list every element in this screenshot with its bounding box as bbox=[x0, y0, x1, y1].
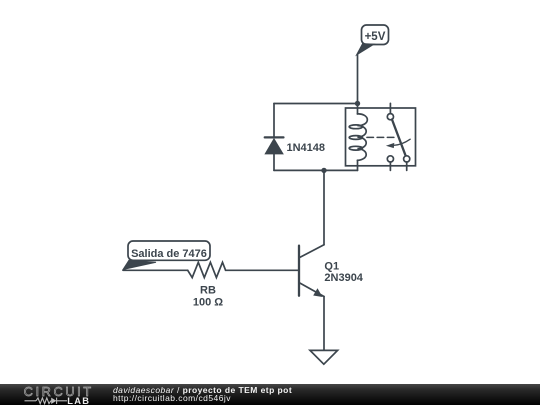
svg-text:LAB: LAB bbox=[67, 396, 90, 405]
relay K1 actuation dashed line bbox=[367, 136, 394, 138]
diode D1 1N4148 bbox=[265, 137, 284, 153]
footer bar bbox=[0, 384, 540, 405]
svg-text:+5V: +5V bbox=[365, 31, 386, 43]
relay K1 switch NC terminal bbox=[387, 156, 393, 162]
svg-text:2N3904: 2N3904 bbox=[324, 272, 363, 284]
net flag Salida de 7476 bbox=[123, 241, 210, 270]
wire flag to resistor RB bbox=[123, 269, 188, 271]
wire diode cathode lead bbox=[273, 104, 275, 138]
relay K1 switch pin stub bottom right bbox=[406, 162, 408, 170]
relay K1 coil pin top bbox=[357, 104, 359, 114]
ground bbox=[310, 350, 338, 364]
svg-text:100 Ω: 100 Ω bbox=[193, 297, 223, 309]
wire node A to diode branch (top horizontal) bbox=[274, 103, 358, 105]
node B junction dot bbox=[321, 168, 326, 173]
svg-text:Q1: Q1 bbox=[324, 260, 339, 272]
relay K1 switch NO terminal bbox=[404, 156, 410, 162]
wire diode anode to relay coil bottom (bottom horizontal) bbox=[274, 169, 358, 171]
wire +5V flag to node A bbox=[357, 55, 359, 104]
wire Q1 emitter to ground bbox=[323, 297, 325, 351]
relay K1 switch pin stub bottom left bbox=[389, 162, 391, 170]
relay K1 switch blade bbox=[392, 120, 406, 157]
relay K1 switch common terminal bbox=[387, 114, 393, 120]
resistor RB bbox=[188, 262, 226, 277]
relay K1 switch pin stub top bbox=[389, 103, 391, 113]
svg-text:RB: RB bbox=[200, 284, 216, 296]
wire diode anode lead bbox=[273, 154, 275, 171]
transistor Q1 2N3904 bbox=[299, 245, 324, 297]
node A junction dot bbox=[355, 101, 360, 106]
wire node B to Q1 collector bbox=[323, 170, 325, 244]
wire resistor RB to Q1 base bbox=[226, 269, 299, 271]
relay K1 coil pin bottom bbox=[357, 160, 359, 170]
relay K1 coil bbox=[349, 114, 367, 160]
svg-text:Salida de 7476: Salida de 7476 bbox=[131, 248, 207, 260]
svg-text:1N4148: 1N4148 bbox=[287, 142, 326, 154]
credit text bbox=[113, 386, 292, 403]
relay K1 actuation arrow bbox=[386, 139, 410, 148]
net flag +5V bbox=[357, 25, 389, 55]
relay K1 body bbox=[346, 108, 416, 166]
CircuitLab logo bbox=[0, 384, 100, 405]
